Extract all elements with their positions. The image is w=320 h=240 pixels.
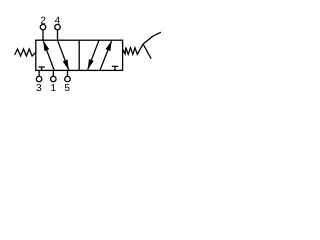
arrowhead down at port 5 bbox=[63, 60, 69, 70]
blocked port 3 tee bbox=[38, 67, 44, 70]
position divider bbox=[78, 40, 80, 70]
port 2 circle bbox=[40, 24, 46, 30]
port 5 circle bbox=[65, 76, 71, 82]
label 3 bbox=[37, 84, 42, 91]
arrowhead down at port 3 position (right box) bbox=[88, 59, 94, 69]
label 1 bbox=[51, 84, 55, 91]
label 4 bbox=[55, 17, 60, 24]
flow path 1 to 4 (right box) bbox=[100, 41, 112, 71]
port 3 stub bbox=[38, 70, 40, 76]
idle-return roller lever arm up bbox=[143, 32, 161, 44]
port 5 stub bbox=[67, 70, 69, 76]
port 4 stub bbox=[57, 30, 59, 40]
flow path 4 to 5 bbox=[58, 40, 69, 70]
label 2 bbox=[41, 17, 46, 24]
return spring left bbox=[15, 49, 36, 56]
blocked port 5 tee bbox=[112, 66, 118, 70]
port 4 circle bbox=[55, 24, 61, 30]
port 1 circle bbox=[51, 76, 57, 82]
port 1 stub bbox=[52, 70, 54, 76]
port 2 stub bbox=[42, 30, 44, 40]
port 3 circle bbox=[36, 76, 42, 82]
spring right bbox=[123, 44, 143, 54]
flow path 2 to 3 (right box) bbox=[88, 40, 99, 69]
arrowhead up at port 2 bbox=[43, 41, 49, 51]
flow path 1 to 2 bbox=[43, 41, 54, 71]
arrowhead up at port 4 position (right box) bbox=[106, 41, 112, 51]
valve body V1 bbox=[36, 40, 123, 70]
label 5 bbox=[65, 84, 70, 91]
idle-return roller lever arm down bbox=[143, 44, 151, 59]
